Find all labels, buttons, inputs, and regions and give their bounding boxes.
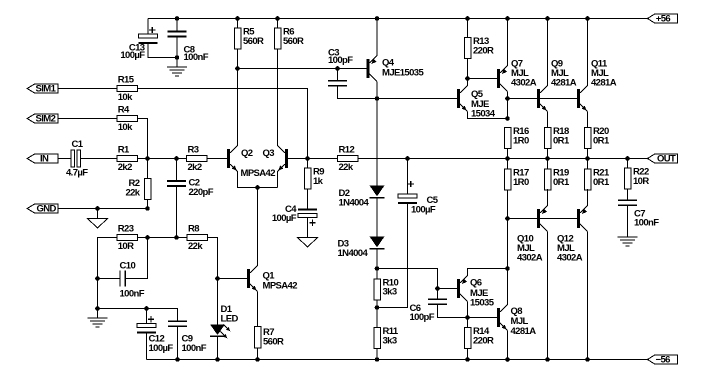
diode D3 xyxy=(370,237,385,248)
wire Q6 collector to node E xyxy=(468,269,508,276)
transistor Q9 xyxy=(537,89,540,108)
terminal GND xyxy=(58,208,148,210)
svg-text:GND: GND xyxy=(37,204,57,215)
svg-text:3k3: 3k3 xyxy=(383,335,397,346)
svg-text:2k2: 2k2 xyxy=(188,162,202,173)
svg-text:100nF: 100nF xyxy=(184,52,209,63)
svg-text:4302A: 4302A xyxy=(511,78,537,89)
junction dot Q4 emitter rail xyxy=(375,16,380,21)
svg-text:100nF: 100nF xyxy=(634,218,659,229)
svg-text:R8: R8 xyxy=(188,224,199,235)
wire tail to Q1 collector xyxy=(257,188,259,266)
svg-text:OUT: OUT xyxy=(657,154,676,165)
svg-text:0R1: 0R1 xyxy=(593,177,610,188)
junction dot R13 top rail xyxy=(465,16,470,21)
junction dot Q5 emitter to R16 node xyxy=(505,116,510,121)
capacitor C5 xyxy=(407,159,409,195)
wire Q6 base line xyxy=(438,288,457,290)
svg-text:10R: 10R xyxy=(633,176,649,187)
capacitor C9 xyxy=(168,320,187,322)
svg-text:MPSA42: MPSA42 xyxy=(263,281,298,292)
wire R8 right down to Q1 base xyxy=(208,238,218,279)
wire +56 top rail xyxy=(148,18,648,20)
wire Q9 emitter to R18 xyxy=(547,112,549,128)
wire R12 left to node G xyxy=(308,158,338,160)
wire Q4 collector node B xyxy=(376,82,378,99)
capacitor C12 xyxy=(146,309,148,325)
wire node D to Q6 collector node xyxy=(507,219,509,269)
terminal SIM2 xyxy=(58,118,117,120)
wire Q3 base to node G xyxy=(288,158,308,160)
svg-text:100µF: 100µF xyxy=(149,343,174,354)
wire R15 to Q3 base node xyxy=(137,89,307,159)
wire ground bus to C9 xyxy=(98,309,178,322)
svg-text:R4: R4 xyxy=(118,105,130,116)
junction dot Q7 rail xyxy=(505,16,510,21)
svg-text:SIM1: SIM1 xyxy=(36,84,57,95)
junction dot R2 bottom node xyxy=(145,235,150,240)
resistor R2 xyxy=(147,159,149,179)
junction dot node I xyxy=(465,315,470,320)
terminal OUT xyxy=(648,154,678,163)
ground triangle below C4 xyxy=(298,238,318,248)
junction dot node G xyxy=(305,156,310,161)
resistor R22 xyxy=(627,159,629,169)
svg-text:4302A: 4302A xyxy=(557,253,583,264)
junction dot R7 rail xyxy=(255,357,260,362)
svg-text:100µF: 100µF xyxy=(120,50,145,61)
svg-text:22k: 22k xyxy=(125,187,140,198)
resistor R4 xyxy=(117,116,138,122)
junction dot Q9 rail xyxy=(545,16,550,21)
resistor R14 xyxy=(467,318,469,328)
capacitor C4 xyxy=(307,189,309,210)
svg-text:−56: −56 xyxy=(656,355,671,366)
junction dot GND R2 xyxy=(145,206,150,211)
svg-text:R1: R1 xyxy=(118,145,130,156)
LED arrow 2 xyxy=(221,332,226,337)
diode D2 xyxy=(370,186,385,197)
resistor R1 xyxy=(117,156,138,162)
wire Q12 emitter to R21 xyxy=(587,189,589,206)
wire Q2 collector vertical xyxy=(237,69,239,146)
resistor R16 xyxy=(504,128,511,149)
wire Q5 emitter down and right xyxy=(468,112,508,119)
resistor R9 xyxy=(307,159,309,169)
transistor Q12 xyxy=(577,209,580,228)
junction dot output R18 xyxy=(545,156,550,161)
transistor Q4 xyxy=(366,59,369,78)
junction dot ground bus xyxy=(95,306,100,311)
resistor R8 xyxy=(187,235,208,241)
svg-text:R23: R23 xyxy=(118,224,134,235)
resistor R20 xyxy=(584,128,591,149)
junction dot output R20 xyxy=(585,156,590,161)
wire Q11 emitter to R20 xyxy=(587,112,589,128)
svg-text:10k: 10k xyxy=(118,122,133,133)
wire Q1 base line xyxy=(218,278,247,280)
wire node C down to R16 xyxy=(507,99,509,119)
wire Q10 collector to -56 rail xyxy=(547,232,549,360)
wire Q9 collector to rail xyxy=(547,19,549,86)
junction dot R5 top rail xyxy=(235,16,240,21)
junction dot output C5 xyxy=(405,156,410,161)
svg-text:2k2: 2k2 xyxy=(118,162,132,173)
svg-text:SIM2: SIM2 xyxy=(36,114,56,125)
svg-text:220pF: 220pF xyxy=(189,187,214,198)
junction dot C2 top xyxy=(174,156,179,161)
wire node E to Q8 collector xyxy=(507,269,509,305)
capacitor C3 xyxy=(337,69,339,81)
transistor Q5 xyxy=(457,89,460,108)
junction dot R13 bottom / Q7 base node xyxy=(465,76,470,81)
capacitor C7 xyxy=(627,189,629,200)
resistor R18 xyxy=(544,128,551,149)
resistor R6 xyxy=(277,19,279,29)
wire R23 left down leg xyxy=(98,238,117,309)
svg-text:0R1: 0R1 xyxy=(553,135,570,146)
svg-text:100pF: 100pF xyxy=(328,55,353,66)
wire Q2 emitter to tail xyxy=(238,172,278,188)
junction dot Q12 rail xyxy=(585,357,590,362)
svg-text:1N4004: 1N4004 xyxy=(339,198,370,209)
junction dot C2 bottom node xyxy=(174,235,179,240)
resistor R7 xyxy=(254,327,261,349)
svg-text:C1: C1 xyxy=(72,139,84,150)
junction dot R23 C10 left xyxy=(95,276,100,281)
resistor R3 xyxy=(187,156,208,162)
capacitor C8 xyxy=(176,19,178,32)
svg-text:100µF: 100µF xyxy=(411,205,436,216)
junction dot Q1 base node xyxy=(215,276,220,281)
ground triangle below GND line xyxy=(97,209,99,219)
svg-text:10R: 10R xyxy=(118,241,134,252)
wire node B down to D2 xyxy=(376,99,378,186)
junction dot R11 rail xyxy=(375,357,380,362)
resistor R13 xyxy=(467,19,469,38)
terminal SIM1 xyxy=(58,88,117,90)
svg-text:R12: R12 xyxy=(339,145,355,156)
svg-text:15035: 15035 xyxy=(470,298,495,309)
svg-text:220R: 220R xyxy=(473,335,494,346)
svg-text:1N4004: 1N4004 xyxy=(338,248,369,259)
junction dot R17 bottom node D xyxy=(505,216,510,221)
wire Q5 collector to node xyxy=(467,79,469,86)
junction dot node B xyxy=(375,96,380,101)
resistor R12 xyxy=(338,156,359,162)
svg-text:0R1: 0R1 xyxy=(553,177,570,188)
wire Q11 collector to rail xyxy=(587,19,589,86)
resistor R15 xyxy=(117,86,138,92)
svg-text:22k: 22k xyxy=(339,162,354,173)
ground earth symbol below C8 xyxy=(176,58,178,68)
wire Q12 collector to -56 rail xyxy=(587,232,589,360)
junction dot D1 rail xyxy=(215,357,220,362)
wire Q7 collector down xyxy=(507,92,509,99)
svg-text:C10: C10 xyxy=(120,261,136,272)
resistor R11 xyxy=(376,308,378,328)
junction dot C12 top xyxy=(144,306,149,311)
resistor R19 xyxy=(544,169,551,190)
transistor Q1 xyxy=(247,269,250,288)
wire output bus xyxy=(358,158,648,160)
svg-text:560R: 560R xyxy=(263,336,284,347)
svg-text:LED: LED xyxy=(221,314,239,325)
wire Q6 emitter to node I xyxy=(467,302,469,318)
resistor R5 xyxy=(237,19,239,29)
svg-text:100pF: 100pF xyxy=(410,312,435,323)
svg-text:IN: IN xyxy=(40,154,49,165)
wire Q3 emitter to tail xyxy=(277,172,279,188)
capacitor C6 xyxy=(437,289,439,300)
resistor R21 xyxy=(584,169,591,190)
svg-text:22k: 22k xyxy=(188,241,203,252)
svg-text:Q6: Q6 xyxy=(470,278,482,289)
svg-text:560R: 560R xyxy=(283,36,304,47)
wire node C to Q9 Q11 bases xyxy=(508,98,577,100)
svg-text:4281A: 4281A xyxy=(551,78,577,89)
svg-text:+56: +56 xyxy=(656,14,671,25)
wire node D to Q10 Q12 bases xyxy=(508,218,577,220)
svg-text:100nF: 100nF xyxy=(120,289,145,300)
svg-text:MJE15035: MJE15035 xyxy=(382,68,424,79)
junction dot R10 bottom xyxy=(375,305,380,310)
resistor R17 xyxy=(504,169,511,190)
junction dot Q10 rail xyxy=(545,357,550,362)
svg-text:1k: 1k xyxy=(313,176,324,187)
resistor R23 xyxy=(117,235,138,241)
wire R23 right to R8 xyxy=(137,237,187,239)
junction dot output R16 xyxy=(505,156,510,161)
junction dot C9 rail xyxy=(175,357,180,362)
LED arrow 1 xyxy=(224,325,229,330)
junction dot node H xyxy=(375,266,380,271)
transistor Q6 xyxy=(457,279,460,298)
junction dot output R22 xyxy=(625,156,630,161)
svg-text:220R: 220R xyxy=(473,45,494,56)
wire R4 to node F xyxy=(137,119,147,159)
wire Q7 emitter to +56 rail xyxy=(507,19,509,66)
svg-text:100µF: 100µF xyxy=(272,213,297,224)
diode D1 LED xyxy=(217,279,219,325)
svg-text:560R: 560R xyxy=(243,36,264,47)
junction dot GND stub xyxy=(95,206,100,211)
wire node B to Q5 base xyxy=(377,98,457,100)
ground earth symbol below C7 xyxy=(618,236,638,238)
junction dot node F xyxy=(145,156,150,161)
transistor Q11 xyxy=(577,89,580,108)
svg-text:4.7µF: 4.7µF xyxy=(66,168,88,179)
wire Q8 base line xyxy=(468,317,497,319)
resistor R10 xyxy=(376,269,378,279)
svg-text:4302A: 4302A xyxy=(517,253,543,264)
svg-text:10k: 10k xyxy=(118,92,133,103)
svg-text:1R0: 1R0 xyxy=(513,135,529,146)
svg-text:R15: R15 xyxy=(118,75,135,86)
ground earth symbol bottom left xyxy=(97,309,99,319)
wire Q7 base line xyxy=(468,78,497,80)
transistor Q7 xyxy=(497,69,500,88)
wire ground bus left xyxy=(97,279,99,309)
junction dot Q6 base node xyxy=(435,286,440,291)
transistor Q3 xyxy=(285,149,288,168)
svg-text:4281A: 4281A xyxy=(511,326,537,337)
junction dot R6 top rail xyxy=(275,16,280,21)
svg-text:4281A: 4281A xyxy=(591,78,617,89)
terminal -56 xyxy=(648,355,678,364)
junction dot R14 rail xyxy=(465,357,470,362)
junction dot C8 top rail xyxy=(175,16,180,21)
junction dot C13/C8 ground node xyxy=(175,55,180,60)
junction dot Q11 rail xyxy=(585,16,590,21)
junction dot Q6 collector node E xyxy=(505,266,510,271)
wire D2 to D3 xyxy=(376,198,378,237)
svg-text:100nF: 100nF xyxy=(182,343,207,354)
capacitor C1 xyxy=(71,150,74,167)
wire Q8 emitter to -56 rail xyxy=(507,331,509,360)
capacitor C2 xyxy=(176,159,178,182)
junction dot Q8 rail xyxy=(505,357,510,362)
svg-text:15034: 15034 xyxy=(471,109,496,120)
capacitor C13 xyxy=(147,19,149,36)
wire Q4 emitter to +56 rail xyxy=(376,19,378,56)
capacitor C10 xyxy=(98,278,121,280)
transistor Q8 xyxy=(497,308,500,327)
wire Q1 emitter to R7 xyxy=(257,292,259,327)
wire node A to Q4 base xyxy=(238,68,367,70)
transistor Q2 xyxy=(227,149,230,168)
wire node F xyxy=(137,158,186,160)
wire -56 bottom rail xyxy=(147,359,648,361)
svg-text:3k3: 3k3 xyxy=(383,287,397,298)
wire node H to C6 branch xyxy=(377,269,438,289)
terminal +56 xyxy=(648,14,678,23)
junction dot R5 bottom node A xyxy=(235,66,240,71)
wire R3 to Q2 base xyxy=(207,158,227,160)
wire Q10 emitter to R19 xyxy=(547,189,549,206)
svg-text:Q2: Q2 xyxy=(241,148,253,159)
junction dot tail node xyxy=(255,185,260,190)
terminal IN xyxy=(58,158,71,160)
svg-text:1R0: 1R0 xyxy=(513,177,529,188)
transistor Q10 xyxy=(537,209,540,228)
svg-text:Q3: Q3 xyxy=(263,148,275,159)
svg-text:MPSA42: MPSA42 xyxy=(241,168,276,179)
wire D3 to node H xyxy=(376,249,378,269)
wire C1 to R1 xyxy=(81,158,117,160)
junction dot C3 top xyxy=(335,66,340,71)
svg-text:0R1: 0R1 xyxy=(593,135,610,146)
svg-text:R3: R3 xyxy=(188,145,199,156)
junction dot Q7 collector node C xyxy=(505,96,510,101)
wire R6 bottom to Q3 collector xyxy=(277,49,279,146)
